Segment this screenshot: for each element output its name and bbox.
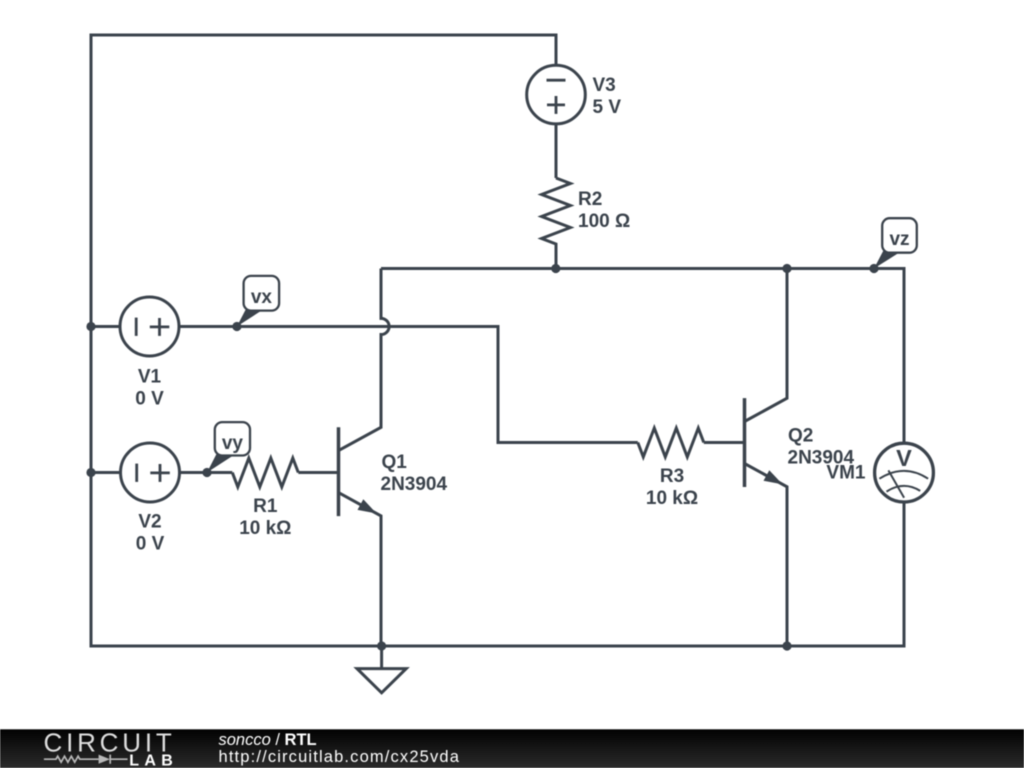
svg-text:http://circuitlab.com/cx25vda: http://circuitlab.com/cx25vda [219, 748, 461, 766]
svg-text:100 Ω: 100 Ω [578, 211, 630, 232]
svg-text:LAB: LAB [129, 752, 178, 768]
svg-text:Q1: Q1 [382, 452, 408, 473]
svg-text:vy: vy [222, 433, 244, 454]
svg-text:vx: vx [251, 287, 273, 308]
svg-text:10 kΩ: 10 kΩ [239, 518, 291, 539]
svg-text:R1: R1 [253, 496, 278, 517]
svg-text:5 V: 5 V [593, 97, 622, 118]
svg-text:V2: V2 [138, 512, 161, 533]
svg-text:Q2: Q2 [788, 426, 813, 447]
svg-text:VM1: VM1 [826, 463, 866, 484]
svg-text:10 kΩ: 10 kΩ [646, 488, 698, 509]
svg-text:V3: V3 [593, 75, 616, 96]
svg-text:2N3904: 2N3904 [381, 474, 448, 495]
svg-text:R3: R3 [660, 466, 684, 487]
svg-text:V: V [896, 445, 912, 471]
svg-text:0 V: 0 V [136, 534, 165, 555]
svg-text:soncco / RTL: soncco / RTL [219, 731, 317, 749]
svg-text:vz: vz [889, 229, 909, 250]
svg-text:0 V: 0 V [135, 388, 164, 409]
svg-text:V1: V1 [138, 366, 162, 387]
svg-text:R2: R2 [578, 189, 602, 210]
